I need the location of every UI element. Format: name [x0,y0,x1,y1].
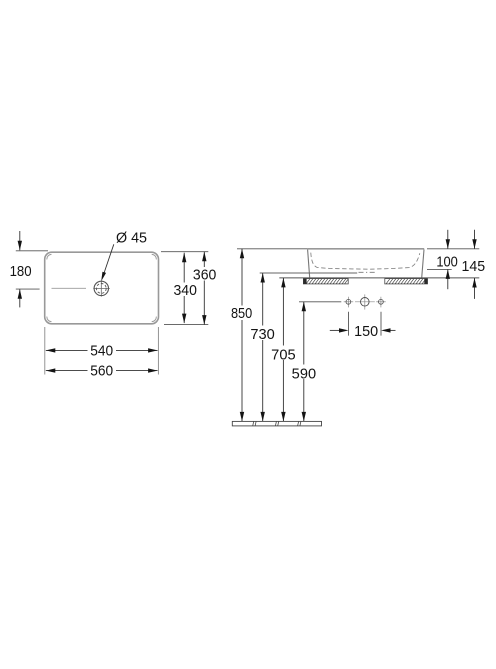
basin right wall [422,250,424,278]
dim 100 lower arrow (up) [447,269,449,289]
label 360 [192,267,218,281]
svg-text:100: 100 [436,254,458,270]
svg-text:590: 590 [292,366,316,382]
leader line to drain [104,244,114,274]
dim 360 line with arrows [203,252,205,325]
floor break ticks [253,421,254,426]
svg-text:730: 730 [250,327,274,343]
label 590 [291,365,318,380]
label 705 [270,346,297,361]
label 560 [88,364,117,377]
drain outer circle [94,281,108,295]
svg-text:360: 360 [193,267,216,283]
dim 180 top extension line [16,250,48,252]
dim 340 line with arrows [183,253,185,323]
dim 730 line [262,273,264,421]
faucet hole centre circle [355,294,375,309]
faucet hole left small circle [344,297,354,308]
leader arrowhead [101,272,106,282]
dim 100 upper arrow (down) [447,230,449,249]
svg-text:705: 705 [271,347,295,363]
dim 145 lower arrow (up) [474,278,476,299]
rim line with left extension (850 dim reference) [237,248,307,250]
counter cross-section right (hatched) [385,279,428,284]
drain dash-dot line [359,271,376,273]
dim 360/340 bottom extension line [164,324,208,326]
svg-text:560: 560 [90,364,113,380]
dim 150 left arrow [330,329,340,331]
dim 150 left extension line [348,312,350,336]
faucet hole centre line (590 extension) [299,301,341,303]
dim 360/340 top extension line [161,251,208,253]
dim 180 bottom extension line [16,288,40,290]
dim 590 line [303,302,305,422]
svg-text:850: 850 [231,306,252,322]
dim 180 lower arrow (up) [19,289,21,307]
dim 180 upper arrow (down) [19,231,21,250]
drain centre dash line [52,287,87,289]
svg-text:180: 180 [10,264,32,280]
label 540 [88,344,117,357]
dim 705 line [282,278,284,422]
basin rim top line [307,248,424,250]
dim 540/560 right extension line [157,327,159,375]
svg-text:540: 540 [90,343,113,359]
basin bottom edge with 730 extension line [260,272,358,274]
rim right extension (100/145 dim reference) [427,248,479,250]
counter top line with 705/145 extension [279,277,479,279]
label 340 [172,283,198,297]
counter cross-section left (hatched) [303,279,348,284]
dim 540 line with arrows [46,349,158,351]
dim 150 right extension line [380,312,382,336]
floor strip [232,421,321,426]
dim 540/560 left extension line [44,327,46,375]
label 850 [229,306,255,321]
svg-text:145: 145 [462,259,486,275]
dim 850 line [241,249,243,422]
drain inner dashed circle [96,284,106,294]
svg-text:340: 340 [174,283,197,299]
drain centermark cross [93,287,110,289]
basin left wall [308,250,310,278]
dim 145 upper arrow (down) [474,230,476,249]
basin inner rim (top view) [47,254,156,321]
dim 560 line with arrows [46,370,158,372]
svg-text:Ø 45: Ø 45 [116,230,147,246]
basin outer rim (top view rounded rectangle) [45,252,159,324]
basin interior dashed profile [311,253,420,270]
dim 100 bottom extension line [427,268,452,270]
faucet hole right small circle [376,297,386,308]
label 730 [250,326,277,341]
svg-text:150: 150 [354,324,378,340]
dim 150 right arrow [390,329,396,331]
